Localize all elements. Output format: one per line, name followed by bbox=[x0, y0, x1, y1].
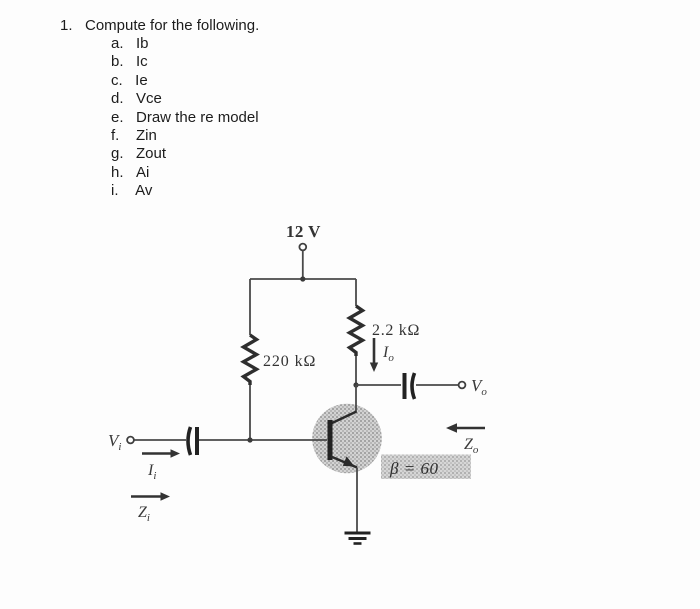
capacitor C2 (output) bbox=[403, 373, 407, 399]
list item f bbox=[111, 127, 157, 144]
node: supply junction bbox=[300, 276, 305, 281]
impedance arrow Zi bbox=[131, 495, 162, 498]
list item i bbox=[111, 182, 152, 199]
input terminal Vi bbox=[127, 437, 134, 444]
impedance arrow Zo bbox=[456, 427, 485, 430]
wire: top horizontal rail bbox=[250, 278, 356, 280]
beta label box bbox=[381, 455, 471, 480]
wire: supply stub bbox=[302, 251, 304, 279]
node: collector/output junction bbox=[353, 382, 358, 387]
wire: base wire from input bbox=[134, 439, 186, 441]
transistor Q1 base bar bbox=[328, 420, 333, 460]
svg-text:Vo: Vo bbox=[471, 376, 487, 398]
list item c bbox=[111, 72, 148, 89]
transistor Q1 emitter lead with arrow bbox=[331, 457, 357, 468]
wire: right branch to output node bbox=[355, 356, 357, 385]
node: base junction with bias resistor bbox=[247, 437, 252, 442]
wire: right branch upper bbox=[355, 279, 357, 306]
svg-text:β = 60: β = 60 bbox=[389, 459, 438, 478]
svg-text:Zo: Zo bbox=[464, 436, 479, 456]
list item d bbox=[111, 90, 162, 107]
ground bbox=[345, 532, 371, 535]
wire: capacitor to base bbox=[199, 439, 327, 441]
current arrow Io bbox=[373, 338, 376, 364]
list item b bbox=[111, 53, 148, 70]
transistor Q1 body (shaded circle) bbox=[312, 404, 382, 474]
svg-text:12 V: 12 V bbox=[286, 222, 321, 241]
wire: left branch lower bbox=[249, 385, 251, 440]
wire: node to output capacitor bbox=[356, 384, 401, 386]
svg-text:Zi: Zi bbox=[138, 504, 150, 524]
svg-text:Vi: Vi bbox=[108, 431, 121, 453]
svg-text:2.2 kΩ: 2.2 kΩ bbox=[372, 322, 420, 339]
svg-text:220 kΩ: 220 kΩ bbox=[263, 353, 316, 370]
supply terminal (12 V) bbox=[299, 244, 306, 251]
svg-text:Io: Io bbox=[382, 344, 394, 364]
transistor Q1 collector lead bbox=[331, 412, 357, 424]
capacitor C1 (input) bbox=[188, 427, 191, 455]
output terminal Vo bbox=[459, 382, 466, 389]
wire: capacitor to Vo terminal bbox=[416, 384, 459, 386]
list item a bbox=[111, 35, 149, 52]
list item h bbox=[111, 164, 149, 181]
resistor 220 kOhm bbox=[244, 335, 257, 385]
problem statement line 1 bbox=[60, 17, 259, 34]
current arrow Ii bbox=[142, 452, 172, 455]
list item g bbox=[111, 145, 166, 162]
wire: collector vertical bbox=[355, 385, 357, 412]
resistor 2.2 kOhm bbox=[350, 306, 363, 356]
wire: emitter down bbox=[356, 468, 358, 533]
wire: left branch upper bbox=[249, 279, 251, 335]
svg-text:Ii: Ii bbox=[147, 462, 156, 482]
list item e bbox=[111, 109, 259, 126]
